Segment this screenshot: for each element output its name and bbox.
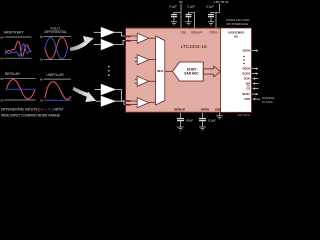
svg-text:IN3–: IN3– xyxy=(126,103,132,107)
svg-text:8V: 8V xyxy=(0,35,4,39)
svg-text:SAR ADC: SAR ADC xyxy=(184,72,199,76)
svg-text:MUX: MUX xyxy=(157,69,163,73)
svg-text:SCKO: SCKO xyxy=(242,72,251,76)
svg-text:IN0+: IN0+ xyxy=(126,34,132,38)
svg-text:5V: 5V xyxy=(179,0,183,4)
svg-text:0.1µF: 0.1µF xyxy=(206,5,214,9)
svg-text:SDO0: SDO0 xyxy=(243,49,251,53)
svg-text:0V: 0V xyxy=(0,56,4,60)
svg-text:2.2µF: 2.2µF xyxy=(187,5,195,9)
svg-text:DIFFERENTIAL: DIFFERENTIAL xyxy=(44,30,67,34)
svg-text:2344 TA01a: 2344 TA01a xyxy=(237,114,251,117)
svg-text:1.8V TO 5V: 1.8V TO 5V xyxy=(213,0,229,4)
svg-text:0V: 0V xyxy=(40,99,44,103)
svg-text:REFBUF: REFBUF xyxy=(174,107,186,111)
svg-text:SCKI: SCKI xyxy=(244,77,251,81)
svg-text:UNIPOLAR: UNIPOLAR xyxy=(46,73,64,77)
svg-text:8V: 8V xyxy=(40,77,44,81)
svg-text:CNV: CNV xyxy=(244,97,250,101)
svg-text:0V: 0V xyxy=(0,98,4,102)
svg-text:CLOCK: CLOCK xyxy=(262,100,274,104)
svg-text:GND: GND xyxy=(215,107,221,111)
svg-text:ARBITRARY: ARBITRARY xyxy=(4,31,25,35)
svg-text:16-BIT: 16-BIT xyxy=(187,67,197,71)
svg-text:CS: CS xyxy=(246,87,250,91)
svg-text:BIPOLAR: BIPOLAR xyxy=(5,72,20,76)
svg-text:8V: 8V xyxy=(40,35,44,39)
svg-text:0V: 0V xyxy=(40,58,44,62)
svg-text:LTC2344-16: LTC2344-16 xyxy=(181,44,208,49)
svg-text:DIFFERENTIAL INPUTS (IN+ – IN–: DIFFERENTIAL INPUTS (IN+ – IN–) WITH xyxy=(1,108,63,112)
svg-text:I/O INTERFACE: I/O INTERFACE xyxy=(226,22,248,26)
svg-text:0.1µF: 0.1µF xyxy=(208,119,216,123)
svg-text:IN0–: IN0– xyxy=(126,39,132,43)
svg-text:8V: 8V xyxy=(0,77,4,81)
svg-text:SDI: SDI xyxy=(246,82,251,86)
svg-text:47µF: 47µF xyxy=(186,119,193,123)
svg-text:0.1µF: 0.1µF xyxy=(169,5,177,9)
svg-text:SDO3: SDO3 xyxy=(243,67,251,71)
svg-text:IN3+: IN3+ xyxy=(126,99,132,103)
svg-text:BUSY: BUSY xyxy=(243,92,251,96)
svg-text:WIDE INPUT COMMON MODE RANGE: WIDE INPUT COMMON MODE RANGE xyxy=(1,114,61,118)
svg-text:REFIN: REFIN xyxy=(201,107,209,111)
